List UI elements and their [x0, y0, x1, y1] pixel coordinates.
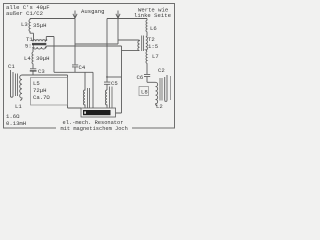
wire C6 to L2 — [147, 81, 156, 83]
transformer T1 core — [32, 43, 46, 45]
resonator bar notch — [84, 111, 86, 113]
right transducer coil — [106, 90, 108, 108]
node output tap arrow left — [73, 11, 77, 19]
svg-text:T2: T2 — [148, 36, 155, 43]
svg-text:C6: C6 — [137, 74, 144, 81]
border frame — [4, 4, 175, 129]
transformer T1 top winding — [33, 40, 47, 42]
svg-text:linke Seite: linke Seite — [134, 12, 171, 19]
L5 label box — [31, 78, 68, 106]
svg-text:C5: C5 — [111, 80, 118, 87]
inductor L2 winding — [156, 82, 158, 106]
inductor L7 — [146, 52, 147, 75]
svg-text:L5: L5 — [33, 80, 40, 87]
wire tap left down — [74, 19, 76, 45]
L8 label box — [139, 87, 149, 96]
capacitor C2 plate left — [164, 77, 166, 100]
wire x54 up — [46, 37, 54, 73]
wire right column x107 — [106, 19, 108, 78]
svg-text:35µH: 35µH — [33, 22, 46, 29]
inductor L1 winding — [20, 75, 22, 100]
capacitor C3 — [30, 65, 36, 76]
svg-text:1.6Ω: 1.6Ω — [6, 113, 20, 120]
right transducer core — [110, 87, 112, 108]
transformer L2 core — [160, 78, 162, 101]
inductor L3 — [29, 19, 30, 34]
svg-text:0.13mH: 0.13mH — [6, 120, 26, 127]
transformer T1 bottom winding — [33, 46, 47, 52]
caption background — [56, 118, 132, 132]
svg-text:C1: C1 — [8, 63, 15, 70]
svg-text:L2: L2 — [156, 103, 163, 110]
wire top bus left — [30, 18, 75, 20]
svg-text:C2: C2 — [158, 67, 165, 74]
capacitor C2 extra line — [170, 76, 172, 100]
wire center link y44 — [75, 19, 138, 45]
svg-text:1:5: 1:5 — [148, 43, 158, 50]
node output tap arrow right — [116, 11, 120, 19]
svg-text:mit magnetischem Joch: mit magnetischem Joch — [61, 126, 128, 132]
transformer L1 core — [16, 74, 18, 97]
svg-text:L3: L3 — [21, 21, 28, 28]
transformer T2 left winding — [138, 40, 140, 51]
svg-text:30µH: 30µH — [36, 55, 49, 62]
capacitor C4 — [72, 44, 78, 72]
node junction dot — [106, 76, 108, 78]
svg-text:C3: C3 — [38, 68, 45, 75]
svg-text:Ausgang: Ausgang — [81, 8, 105, 15]
svg-text:72µH: 72µH — [33, 87, 46, 94]
resonator box — [81, 108, 116, 117]
node dot T1 bottom right — [45, 47, 47, 49]
capacitor C2 plate right — [166, 75, 168, 100]
wire y77 link — [107, 76, 122, 78]
wire y75 from C3 — [22, 75, 81, 108]
inductor L4 — [32, 52, 33, 65]
svg-text:außer C1/C2: außer C1/C2 — [6, 10, 43, 17]
wire long middle y46 — [47, 45, 122, 47]
wire T2 bottom link — [122, 50, 139, 52]
svg-text:L1: L1 — [15, 103, 22, 110]
svg-text:L7: L7 — [152, 53, 159, 60]
svg-text:L4: L4 — [24, 55, 31, 62]
wire L3 to T1 — [30, 32, 34, 42]
wire left mid y72 — [54, 72, 93, 108]
capacitor C1 plate left — [10, 70, 12, 97]
wire top bus right — [107, 18, 147, 20]
transformer T2 core — [142, 36, 144, 52]
capacitor C1 plate right — [12, 72, 14, 97]
wire right loop down — [116, 46, 122, 113]
svg-text:5:1: 5:1 — [25, 43, 36, 50]
svg-text:L8: L8 — [141, 89, 148, 96]
capacitor C1 bottom bend — [11, 96, 14, 97]
capacitor C5 — [104, 77, 110, 90]
transformer T2 right winding — [146, 37, 148, 52]
inductor L6 — [146, 19, 147, 37]
node dot T1 top right — [46, 39, 48, 41]
capacitor C2 bottom bend — [165, 100, 167, 101]
resonator bar — [83, 110, 111, 115]
left transducer coil — [84, 72, 86, 108]
left transducer core — [88, 88, 90, 108]
capacitor C6 — [144, 74, 150, 82]
svg-text:C4: C4 — [79, 64, 86, 71]
svg-text:L6: L6 — [150, 25, 157, 32]
svg-text:Ca.7Ω: Ca.7Ω — [33, 94, 50, 101]
